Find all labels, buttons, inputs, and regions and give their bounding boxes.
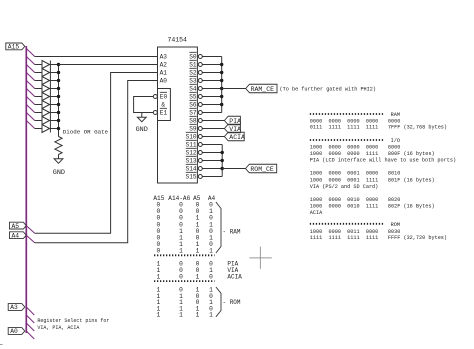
junction diode row 4 xyxy=(57,87,60,90)
wire S1 to RAM node xyxy=(202,64,221,66)
svg-text:E0: E0 xyxy=(160,93,168,100)
label A4 xyxy=(10,232,27,240)
wire anode D7 xyxy=(35,112,42,114)
wire ROM-CE column xyxy=(221,145,223,177)
label ACIA xyxy=(224,132,245,141)
diode D5 (A10) xyxy=(42,93,50,101)
svg-text:S12: S12 xyxy=(186,149,197,156)
bus entry A14 xyxy=(26,57,34,65)
svg-text:RAM: RAM xyxy=(391,112,400,118)
svg-text:ACIA: ACIA xyxy=(227,273,242,280)
wire S3 to RAM node xyxy=(202,80,221,82)
wire A4 to U1 pin A0 xyxy=(35,81,158,243)
U1 pin S0 bubble xyxy=(198,55,202,59)
U1 pin S7 bubble xyxy=(198,111,202,115)
wire S2 to RAM node xyxy=(202,72,221,74)
U1 pin S11 bubble xyxy=(198,143,202,147)
bus entry A8 xyxy=(26,105,34,113)
text GND (R1) xyxy=(53,169,65,177)
svg-text:0000: 0000 xyxy=(388,119,400,125)
svg-text:ROM_CE: ROM_CE xyxy=(250,166,274,173)
ground (enables) xyxy=(137,117,146,122)
svg-text:A1: A1 xyxy=(160,69,168,76)
svg-text:A2: A2 xyxy=(160,61,168,68)
svg-text:S11: S11 xyxy=(186,141,197,148)
bus entry A2 (register select) xyxy=(26,315,34,323)
svg-text:1000 0000 0010 0000: 1000 0000 0010 0000 xyxy=(310,197,379,203)
diode D2 (A13) xyxy=(42,69,50,77)
U1 pin S5 bubble xyxy=(198,95,202,99)
svg-text:8030: 8030 xyxy=(388,229,400,235)
wire cathode D5 xyxy=(50,96,59,98)
wire cathode D4 xyxy=(50,88,59,90)
wire A15 to U1 pin A3 xyxy=(35,56,158,58)
U1 pin name S3 xyxy=(189,76,197,84)
wire S6 to RAM node xyxy=(202,104,221,106)
svg-text:&: & xyxy=(161,102,165,109)
U1 pin S1 bubble xyxy=(198,63,202,67)
label PIA xyxy=(224,116,241,125)
svg-text:S6: S6 xyxy=(189,101,197,108)
svg-text:S4: S4 xyxy=(189,85,197,92)
svg-text:GND: GND xyxy=(136,126,148,134)
svg-text:S1: S1 xyxy=(189,61,197,68)
U1 pin name S0 xyxy=(189,52,197,60)
bus entry A15 xyxy=(26,49,34,57)
junction diode row 5 xyxy=(57,95,60,98)
svg-text:VIA, PIA, ACIA: VIA, PIA, ACIA xyxy=(37,325,79,331)
wire S14 to ROM node xyxy=(202,168,222,170)
diode D4 (A11) xyxy=(42,85,50,93)
wire cathode D6 xyxy=(50,104,59,106)
wire anode D8 xyxy=(35,120,42,122)
svg-text:S14: S14 xyxy=(186,165,197,172)
wire anode D9 xyxy=(35,128,42,130)
svg-text:A3: A3 xyxy=(10,304,18,311)
U1 pin name S7 xyxy=(189,108,197,116)
junction diode row 9 xyxy=(57,127,60,130)
svg-text:Diode OR Gate: Diode OR Gate xyxy=(63,129,109,136)
U1 pin E1 bubble xyxy=(153,111,157,115)
svg-text:ROM: ROM xyxy=(391,222,400,228)
wire S13 to ROM node xyxy=(202,160,222,162)
U1 pin name E1 xyxy=(160,108,168,116)
U1 pin name S2 xyxy=(189,68,197,76)
U1 pin E0 bubble xyxy=(153,95,157,99)
bus entry A5 xyxy=(26,226,34,234)
wire anode D4 xyxy=(35,88,42,90)
wire S7 to RAM node xyxy=(202,112,221,114)
note PHI2 xyxy=(280,86,377,92)
wire OR output to U1 pin A2 xyxy=(59,64,158,66)
junction diode row 8 xyxy=(57,119,60,122)
wire S4 to RAM node xyxy=(202,88,221,90)
U1 pin S13 bubble xyxy=(198,159,202,163)
junction diode row 3 xyxy=(57,79,60,82)
wire S12 to ROM node xyxy=(202,152,222,154)
svg-text:S10: S10 xyxy=(186,133,197,140)
svg-text:1111 1111 1111 1111: 1111 1111 1111 1111 xyxy=(310,235,379,241)
text Diode OR Gate xyxy=(63,129,109,136)
truth table ROM rows xyxy=(156,287,213,319)
wire to RAM_CE label xyxy=(222,88,246,90)
text 74154 xyxy=(167,37,187,44)
U1 pin name A2 xyxy=(160,61,168,68)
label A5 xyxy=(10,222,27,230)
junction diode row 2 xyxy=(57,71,60,74)
svg-text:A0: A0 xyxy=(160,77,168,84)
truth table RAM brace xyxy=(216,202,241,253)
svg-text:S3: S3 xyxy=(189,77,197,84)
diode D6 (A9) xyxy=(42,101,50,109)
truth table separator 1 xyxy=(154,254,215,256)
svg-text:800F (16 bytes): 800F (16 bytes) xyxy=(388,151,435,157)
diode D8 (A7) xyxy=(42,117,50,125)
wire anode D3 xyxy=(35,80,42,82)
wire S11 to ROM node xyxy=(202,144,222,146)
junction S6 xyxy=(220,103,223,106)
truth table separator 2 xyxy=(154,280,215,282)
svg-text:ACIA: ACIA xyxy=(310,210,323,216)
wire R1 to ground xyxy=(58,155,60,159)
svg-text:0000 0000 0000 0000: 0000 0000 0000 0000 xyxy=(310,119,379,125)
diode D9 (A6) xyxy=(42,125,50,133)
text & xyxy=(161,102,165,109)
svg-text:S7: S7 xyxy=(189,109,197,116)
wire tie to ground xyxy=(141,113,143,118)
svg-text:I/O: I/O xyxy=(391,138,400,144)
svg-text:GND: GND xyxy=(53,169,65,177)
svg-text:1: 1 xyxy=(196,247,200,254)
truth table header xyxy=(153,195,215,202)
bus entry A0 (register select) xyxy=(26,331,34,339)
junction S14 xyxy=(221,167,224,170)
label A0 (register select) xyxy=(8,328,25,336)
svg-text:PIA: PIA xyxy=(229,118,241,125)
label RAM_CE xyxy=(246,84,277,93)
svg-text:1: 1 xyxy=(209,312,213,319)
IC U1 74154 body xyxy=(158,47,198,183)
truth table IO rows xyxy=(156,261,242,281)
bus entry A12 xyxy=(26,73,34,81)
svg-text:S9: S9 xyxy=(189,125,197,132)
ground (R1) xyxy=(54,159,63,164)
junction S13 xyxy=(221,159,224,162)
svg-text:1: 1 xyxy=(196,273,200,280)
diode D7 (A8) xyxy=(42,109,50,117)
label A15 xyxy=(6,43,25,51)
svg-text:- ROM: - ROM xyxy=(223,299,241,306)
U1 enable sub-block xyxy=(158,89,171,121)
U1 pin name S15 xyxy=(186,172,197,180)
svg-text:0111 1111 1111 1111: 0111 1111 1111 1111 xyxy=(310,125,379,131)
wire S8 to PIA xyxy=(202,120,224,122)
svg-text:1000 0000 0000 0000: 1000 0000 0000 0000 xyxy=(310,145,379,151)
resistor R1 (pulldown) xyxy=(55,137,62,155)
svg-text:0: 0 xyxy=(156,247,160,254)
svg-text:Register Select pins for: Register Select pins for xyxy=(37,318,109,324)
truth table RAM rows xyxy=(156,202,213,255)
junction S2 xyxy=(220,71,223,74)
junction S5 xyxy=(220,95,223,98)
svg-text:RAM_CE: RAM_CE xyxy=(251,86,275,93)
svg-text:E1: E1 xyxy=(160,109,168,116)
svg-text:S0: S0 xyxy=(189,53,197,60)
svg-text:VIA: VIA xyxy=(229,126,241,133)
U1 pin S8 bubble xyxy=(198,119,202,123)
svg-text:8010: 8010 xyxy=(388,171,400,177)
svg-text:VIA (PS/2 and SD Card): VIA (PS/2 and SD Card) xyxy=(310,184,379,190)
bus entry A6 xyxy=(26,121,34,129)
U1 pin name S14 xyxy=(186,164,197,172)
U1 pin name S8 xyxy=(189,116,197,124)
svg-text:S5: S5 xyxy=(189,93,197,100)
svg-text:- RAM: - RAM xyxy=(223,229,241,236)
bus entry A7 xyxy=(26,113,34,121)
U1 pin S10 bubble xyxy=(198,135,202,139)
U1 pin S15 bubble xyxy=(198,175,202,179)
U1 pin S3 bubble xyxy=(198,79,202,83)
svg-text:A5: A5 xyxy=(12,223,20,230)
bus A (address bus) xyxy=(25,46,27,333)
label VIA xyxy=(224,124,241,133)
wire S15 to ROM node xyxy=(202,176,222,178)
origin cross marker xyxy=(249,247,271,269)
wire OR-output column xyxy=(58,65,60,137)
junction S12 xyxy=(221,151,224,154)
svg-text:802F (16 Bytes): 802F (16 Bytes) xyxy=(388,203,435,209)
wire cathode D8 xyxy=(50,120,59,122)
truth table ROM brace xyxy=(216,287,241,317)
bus entry A9 xyxy=(26,97,34,105)
wire E0-E1 tie xyxy=(134,97,154,113)
svg-text:8020: 8020 xyxy=(388,197,400,203)
svg-text:1000 0000 0001 0000: 1000 0000 0001 0000 xyxy=(310,171,379,177)
note register select line2 xyxy=(37,325,79,331)
U1 pin name S10 xyxy=(186,132,197,140)
wire to ROM_CE label xyxy=(222,168,245,170)
bus entry A10 xyxy=(26,89,34,97)
svg-text:1000 0000 0010 1111: 1000 0000 0010 1111 xyxy=(310,203,379,209)
U1 pin name A3 xyxy=(160,53,168,60)
wire cathode D1 xyxy=(50,64,59,66)
memory map text block xyxy=(310,112,456,241)
U1 pin S6 bubble xyxy=(198,103,202,107)
U1 pin S14 bubble xyxy=(198,167,202,171)
svg-text:PIA (LCD interface will have t: PIA (LCD interface will have to use both… xyxy=(310,157,456,163)
wire cathode D9 xyxy=(50,128,59,130)
svg-text:S2: S2 xyxy=(189,69,197,76)
svg-text:A4: A4 xyxy=(12,232,20,239)
wire anode D1 xyxy=(35,64,42,66)
wire S9 to VIA xyxy=(202,128,224,130)
bus entry A3 (register select) xyxy=(26,307,34,315)
junction diode row 1 xyxy=(57,63,60,66)
bus entry A11 xyxy=(26,81,34,89)
junction S1 xyxy=(220,63,223,66)
U1 pin S4 bubble xyxy=(198,87,202,91)
bus entry A13 xyxy=(26,65,34,73)
wire S10 to ACIA xyxy=(202,136,224,138)
svg-text:1: 1 xyxy=(179,247,183,254)
svg-text:A0: A0 xyxy=(10,328,18,335)
U1 pin name A0 xyxy=(160,77,168,84)
svg-text:S13: S13 xyxy=(186,157,197,164)
svg-text:1000 0000 0011 0000: 1000 0000 0011 0000 xyxy=(310,229,379,235)
U1 pin S2 bubble xyxy=(198,71,202,75)
wire cathode D7 xyxy=(50,112,59,114)
label A3 (register select) xyxy=(8,304,25,312)
note register select line1 xyxy=(37,318,109,324)
U1 pin name S9 xyxy=(189,124,197,132)
wire RAM-CE column xyxy=(221,57,223,113)
svg-text:801F (16 bytes): 801F (16 bytes) xyxy=(388,177,435,183)
svg-text:ACIA: ACIA xyxy=(229,134,245,141)
svg-text:1: 1 xyxy=(179,312,183,319)
svg-text:FFFF (32,720 bytes): FFFF (32,720 bytes) xyxy=(388,235,447,241)
text GND (enables) xyxy=(136,126,148,134)
U1 pin name E0 xyxy=(160,92,168,100)
page corner tick xyxy=(0,344,3,346)
wire S0 to RAM node xyxy=(202,56,221,58)
U1 pin name A1 xyxy=(160,69,168,76)
wire anode D5 xyxy=(35,96,42,98)
svg-text:0: 0 xyxy=(209,273,213,280)
wire A5 to U1 pin A1 xyxy=(35,73,158,234)
svg-text:8000: 8000 xyxy=(388,145,400,151)
wire cathode D3 xyxy=(50,80,59,82)
diode D1 (A14) xyxy=(42,61,50,69)
junction diode row 7 xyxy=(57,111,60,114)
svg-text:A15: A15 xyxy=(8,44,20,51)
svg-text:0: 0 xyxy=(179,273,183,280)
svg-text:1: 1 xyxy=(156,312,160,319)
svg-text:(To be further gated with PHI2: (To be further gated with PHI2) xyxy=(280,86,377,92)
bus entry A4 xyxy=(26,235,34,243)
U1 pin name S13 xyxy=(186,156,197,164)
U1 pin S12 bubble xyxy=(198,151,202,155)
U1 pin name S1 xyxy=(189,60,197,68)
U1 pin S9 bubble xyxy=(198,127,202,131)
svg-text:74154: 74154 xyxy=(167,37,187,44)
bus entry A1 (register select) xyxy=(26,323,34,331)
junction S3 xyxy=(220,79,223,82)
svg-text:1: 1 xyxy=(196,312,200,319)
svg-text:1000 0000 0001 1111: 1000 0000 0001 1111 xyxy=(310,177,379,183)
wire S5 to RAM node xyxy=(202,96,221,98)
junction S4 xyxy=(220,87,223,90)
U1 pin name S4 xyxy=(189,84,197,92)
svg-text:7FFF (32,768 bytes): 7FFF (32,768 bytes) xyxy=(388,125,447,131)
label ROM_CE xyxy=(246,164,277,173)
svg-text:S8: S8 xyxy=(189,117,197,124)
junction diode row 6 xyxy=(57,103,60,106)
svg-text:1000 0000 0000 1111: 1000 0000 0000 1111 xyxy=(310,151,379,157)
U1 pin name S11 xyxy=(186,140,197,148)
wire cathode D2 xyxy=(50,72,59,74)
U1 pin name S6 xyxy=(189,100,197,108)
U1 pin name S5 xyxy=(189,92,197,100)
svg-text:1: 1 xyxy=(156,273,160,280)
U1 pin name S12 xyxy=(186,148,197,156)
wire anode D2 xyxy=(35,72,42,74)
svg-text:1: 1 xyxy=(209,247,213,254)
wire anode D6 xyxy=(35,104,42,106)
svg-text:A3: A3 xyxy=(160,53,168,60)
svg-text:S15: S15 xyxy=(186,173,197,180)
diode D3 (A12) xyxy=(42,77,50,85)
